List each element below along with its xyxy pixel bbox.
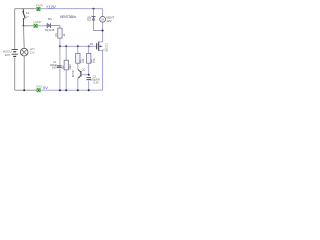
wire: blue bottom rail <box>41 89 103 91</box>
wire: zener bottom to drain node <box>94 20 103 30</box>
svg-text:6.3V: 6.3V <box>93 81 99 85</box>
resistor R2 <box>64 60 68 70</box>
svg-text:PWR: PWR <box>36 3 44 7</box>
svg-text:BUZ71: BUZ71 <box>104 43 108 52</box>
svg-text:16V: 16V <box>52 66 57 70</box>
svg-text:1N4148: 1N4148 <box>45 28 55 32</box>
wire: Q1 base to R4 column <box>81 74 89 76</box>
svg-text:Q1: Q1 <box>82 68 86 72</box>
svg-text:R2: R2 <box>61 65 65 69</box>
MOSFET T1 <box>96 43 98 49</box>
wire: battery left rail (top corner to bottom corner, grey) <box>14 9 16 49</box>
wire: junction to LAMP port <box>24 25 34 27</box>
svg-text:12V: 12V <box>30 51 35 55</box>
svg-text:47k: 47k <box>92 58 96 63</box>
svg-text:10k: 10k <box>81 58 85 63</box>
wire: bottom grey rail from battery to GND port <box>15 89 37 91</box>
node: R2 top <box>65 45 67 47</box>
motor M VENT 12V <box>100 16 106 22</box>
wire: R2 to rail <box>65 70 67 90</box>
wire: rail corner down to motor <box>102 9 104 17</box>
wire: gate wire <box>60 45 97 47</box>
resistor R1 <box>58 28 62 38</box>
wire: R4 column top <box>88 46 90 53</box>
wire: Q1 emitter to rail <box>77 78 79 90</box>
svg-text:LAMP: LAMP <box>33 20 41 24</box>
wire: C1 column <box>59 46 61 65</box>
wire: LAMP port to D1 <box>37 25 47 27</box>
wire: C1 to rail <box>59 68 61 90</box>
wire: +12V rail blue <box>40 8 102 10</box>
svg-text:R4: R4 <box>90 42 94 46</box>
svg-text:M: M <box>101 17 104 21</box>
resistor R3 <box>76 53 80 63</box>
wire: zener top lead <box>93 9 95 17</box>
wire: R1 to gate node <box>59 38 61 46</box>
wire: motor to drain node <box>102 22 104 42</box>
wire: R3 column top <box>77 46 79 53</box>
node: base / C2 top <box>88 74 90 76</box>
svg-text:0V: 0V <box>43 85 48 90</box>
node: lamp to bottom rail <box>23 89 25 91</box>
svg-text:12V: 12V <box>5 53 11 57</box>
wire: junction down to lamp <box>23 26 26 49</box>
node: zener branch on +12V rail <box>93 8 95 10</box>
svg-text:12V: 12V <box>89 16 92 21</box>
svg-text:BC547: BC547 <box>71 69 75 77</box>
capacitor C1 100u <box>57 65 62 67</box>
wire: R4 to base node <box>88 63 90 74</box>
lamp LP1 <box>20 48 28 56</box>
svg-text:2M2: 2M2 <box>68 64 72 70</box>
node: R3 top <box>77 45 79 47</box>
node: lamp junction <box>23 25 25 27</box>
svg-text:12V: 12V <box>106 19 111 23</box>
node: R4 top <box>88 45 90 47</box>
wire: D1 to R1 corner <box>51 26 60 29</box>
zener diode ZD1 <box>92 16 96 17</box>
node: gate/R1/C1 <box>59 45 61 47</box>
wire: C2 to rail <box>88 80 90 90</box>
wire: top grey rail from battery to PWR port <box>15 8 36 10</box>
wire: R3 to Q1 collector <box>77 63 79 69</box>
wire: source to bottom rail <box>102 51 104 90</box>
svg-text:VENT360s: VENT360s <box>60 15 77 19</box>
svg-text:1x: 1x <box>26 15 30 19</box>
node: drain node <box>102 30 104 32</box>
wire: R2 column top <box>65 46 67 60</box>
capacitor C2 <box>87 77 92 79</box>
switch S1 <box>22 9 24 11</box>
svg-text:D1: D1 <box>48 17 52 21</box>
svg-text:R1: R1 <box>54 33 58 37</box>
battery ACCU 12V <box>12 50 18 57</box>
